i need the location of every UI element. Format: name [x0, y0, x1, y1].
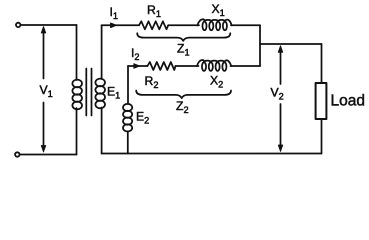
resistor R2 — [148, 62, 176, 70]
wire between R1 and X1 — [168, 24, 199, 26]
wire V2 arrow upper segment — [280, 50, 282, 84]
svg-text:X1: X1 — [212, 2, 225, 18]
svg-text:Z1: Z1 — [177, 42, 190, 58]
svg-text:V1: V1 — [40, 83, 53, 99]
arrow V1 down head — [41, 146, 46, 153]
brace Z1 — [137, 33, 230, 41]
wire V1 arrow upper segment — [43, 31, 45, 79]
svg-text:I2: I2 — [131, 46, 140, 62]
transformer core — [86, 69, 91, 116]
wire E1 vertical lower — [101, 108, 103, 154]
wire load vertical upper — [321, 44, 323, 83]
wire primary vertical upper — [76, 25, 78, 80]
wire branch2 vertical lower (E2 to bottom rail) — [127, 131, 129, 153]
wire top-left rail — [21, 24, 77, 26]
svg-text:Load: Load — [331, 93, 365, 110]
arrow V2 up head — [278, 46, 283, 53]
wire V1 arrow lower segment — [43, 103, 45, 148]
wire bottom rail secondary — [102, 153, 322, 155]
winding E1 — [95, 79, 105, 109]
wire branch2 vertical upper (to E2) — [127, 66, 129, 104]
inductor X1 — [198, 19, 232, 30]
winding E2 — [123, 104, 132, 132]
terminal bottom-left — [15, 152, 19, 156]
svg-text:V2: V2 — [271, 85, 284, 101]
arrow I2 head — [134, 64, 140, 69]
wire junction vertical — [259, 25, 261, 66]
svg-text:E2: E2 — [136, 110, 149, 126]
resistor R1 — [139, 21, 168, 29]
wire load vertical lower — [321, 119, 323, 154]
svg-text:Z2: Z2 — [176, 99, 189, 115]
svg-text:E1: E1 — [107, 85, 120, 101]
wire branch2 horizontal start — [128, 65, 148, 67]
wire primary vertical lower — [76, 108, 78, 155]
arrow V1 up head — [41, 27, 46, 34]
svg-text:R1: R1 — [147, 3, 161, 19]
svg-text:X2: X2 — [210, 74, 223, 90]
wire top rail secondary — [102, 24, 139, 26]
svg-text:I1: I1 — [110, 5, 119, 21]
wire X2 to junction — [231, 65, 261, 67]
wire E1 vertical upper — [101, 25, 103, 79]
inductor X2 — [197, 60, 231, 71]
wire between R2 and X2 — [176, 65, 199, 67]
wire X1 to junction — [231, 24, 260, 26]
brace Z2 — [136, 91, 231, 99]
wire load feed horizontal — [260, 43, 322, 45]
load box — [316, 83, 327, 119]
wire bottom-left rail — [20, 154, 77, 156]
terminal top-left — [16, 23, 20, 27]
primary winding — [72, 80, 82, 110]
arrow I1 head — [111, 23, 117, 28]
svg-text:R2: R2 — [145, 74, 159, 90]
wire V2 arrow lower segment — [280, 104, 282, 146]
arrow V2 down head — [278, 145, 283, 152]
